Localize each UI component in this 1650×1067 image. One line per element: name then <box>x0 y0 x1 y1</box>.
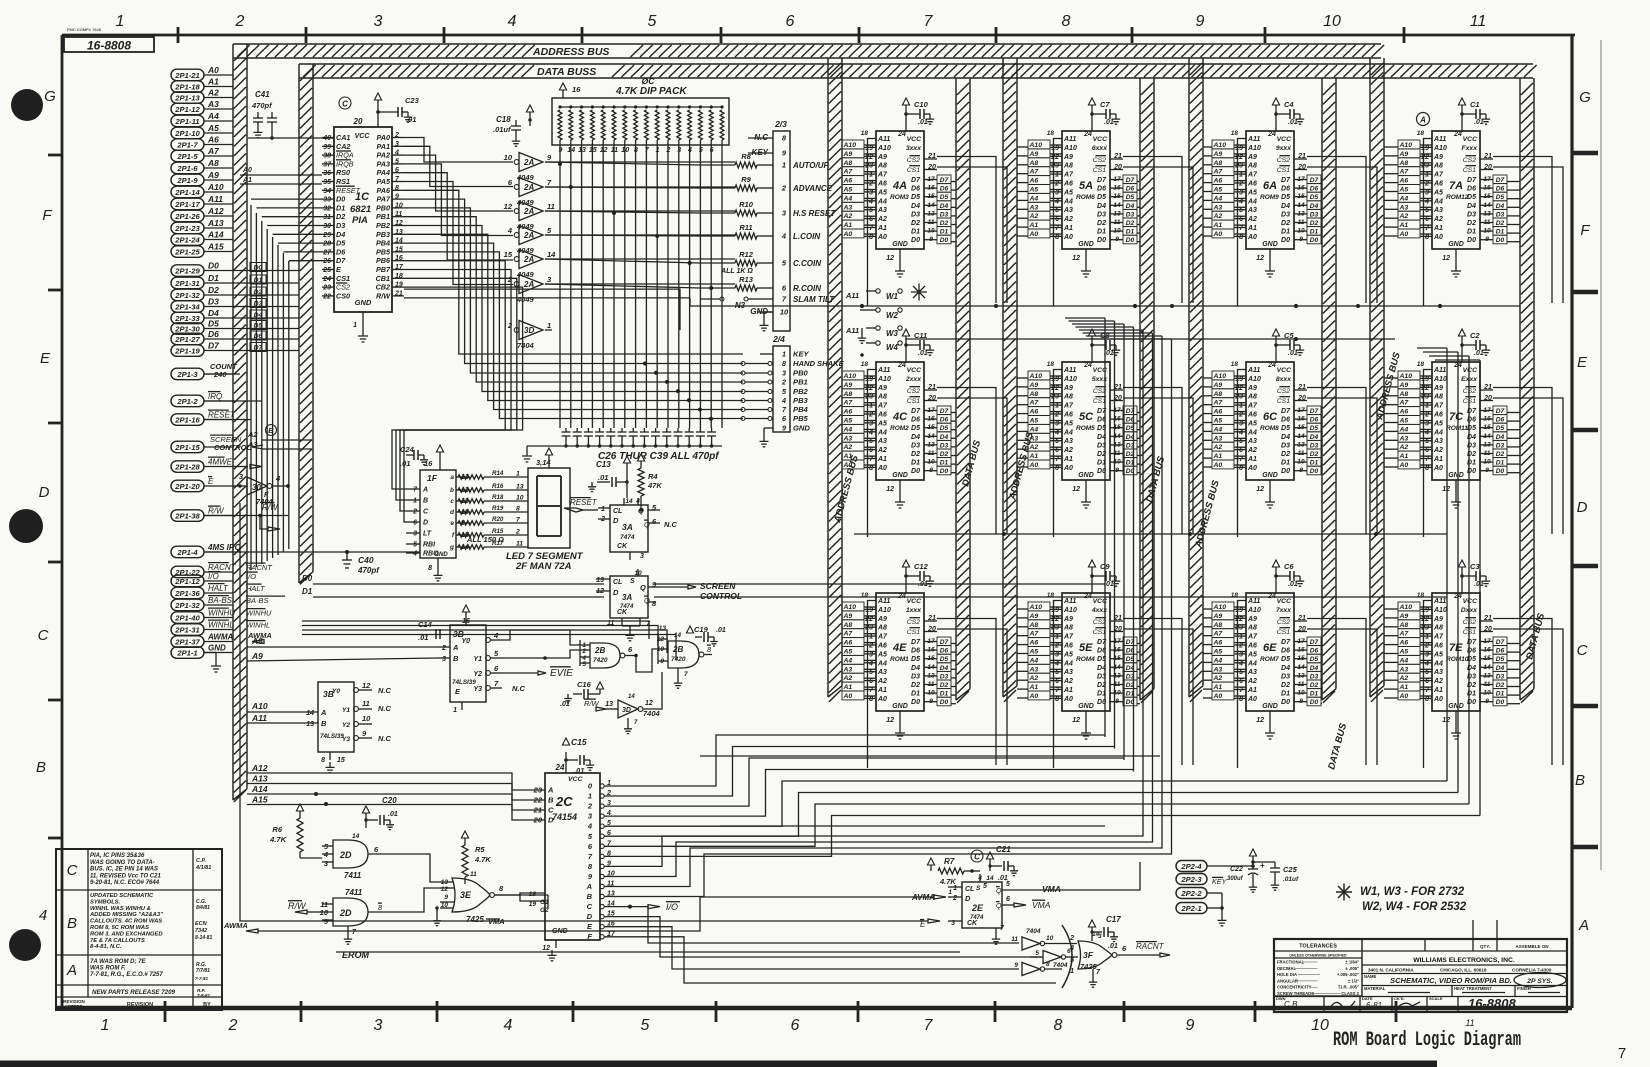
capacitor C16 .01 <box>560 680 604 708</box>
svg-text:D5: D5 <box>1310 425 1319 432</box>
svg-text:4: 4 <box>868 429 873 436</box>
svg-text:C15: C15 <box>571 737 587 747</box>
flip-flop 3A 7474 #1 <box>598 498 678 560</box>
svg-text:D2: D2 <box>336 212 345 221</box>
svg-text:E: E <box>336 265 341 274</box>
svg-text:2/3: 2/3 <box>774 119 787 129</box>
data tap wires col1 rowE <box>951 644 956 704</box>
svg-text:7/7/81: 7/7/81 <box>196 968 210 974</box>
svg-text:PB1: PB1 <box>376 212 390 221</box>
svg-text:A4: A4 <box>843 426 853 433</box>
svg-text:7411: 7411 <box>345 888 363 897</box>
svg-text:A0: A0 <box>1399 231 1409 238</box>
svg-text:CS2: CS2 <box>1093 388 1106 395</box>
svg-text:SCALE: SCALE <box>1429 996 1443 1001</box>
svg-text:.01: .01 <box>1104 119 1114 126</box>
svg-text:6: 6 <box>786 13 795 30</box>
svg-text:1: 1 <box>1070 968 1074 975</box>
svg-text:9xxx: 9xxx <box>1276 145 1292 152</box>
svg-text:ROM2: ROM2 <box>890 425 909 432</box>
A11 long wire below ROM row A <box>690 298 1520 308</box>
svg-text:D6: D6 <box>1310 648 1319 655</box>
svg-text:A14: A14 <box>207 230 224 240</box>
svg-text:A9: A9 <box>1063 616 1073 623</box>
svg-text:7: 7 <box>1055 456 1060 463</box>
ROM column 3 data bus vertical bar <box>1322 78 1336 703</box>
svg-text:74LSI39: 74LSI39 <box>320 733 344 740</box>
svg-text:A: A <box>547 786 553 795</box>
svg-text:CONCENTRICITY: CONCENTRICITY <box>1277 985 1312 990</box>
svg-text:C16: C16 <box>577 680 592 689</box>
wire 2B#1 out to 2B#2 in <box>634 649 658 672</box>
svg-text:22: 22 <box>1050 385 1059 392</box>
buffer output wires to 2/3 resistors <box>545 162 700 288</box>
svg-text:8: 8 <box>652 599 657 608</box>
svg-text:A10: A10 <box>1063 376 1077 383</box>
svg-text:16: 16 <box>572 85 581 94</box>
connector pin 2P1-13 (A2) <box>171 88 233 104</box>
svg-text:8: 8 <box>1425 465 1429 472</box>
svg-text:D6: D6 <box>1281 417 1290 424</box>
flip-flop 3A 7474 #2 <box>596 569 660 641</box>
svg-text:22: 22 <box>1420 385 1429 392</box>
resistor R7 4.7K <box>927 857 980 896</box>
svg-text:12: 12 <box>1442 486 1450 493</box>
svg-text:D1: D1 <box>302 587 313 596</box>
svg-text:2P1-19: 2P1-19 <box>174 346 200 355</box>
svg-text:C17: C17 <box>1106 915 1121 924</box>
svg-text:D3: D3 <box>911 211 920 218</box>
svg-text:D0: D0 <box>911 237 920 244</box>
svg-text:D7: D7 <box>1281 177 1291 184</box>
decoder 2C 74154 <box>520 752 616 961</box>
svg-text:A3: A3 <box>843 204 853 211</box>
A10 A11 wires to 3B #2 <box>247 701 300 723</box>
NAND gate 2B 7420 #1 <box>580 640 636 668</box>
svg-text:8xxx: 8xxx <box>1276 376 1292 383</box>
svg-text:A10: A10 <box>1029 604 1043 611</box>
buffer 2A 4049 #5 <box>504 250 557 280</box>
svg-text:A13: A13 <box>207 218 224 228</box>
svg-text:CS2: CS2 <box>907 157 920 164</box>
svg-text:CS2: CS2 <box>907 388 920 395</box>
svg-text:WINHU: WINHU <box>208 609 235 618</box>
svg-text:12: 12 <box>886 717 894 724</box>
svg-text:RBI: RBI <box>423 542 436 549</box>
svg-text:C20: C20 <box>382 796 397 805</box>
svg-text:A10: A10 <box>1247 376 1261 383</box>
svg-text:ADDRESS BUS: ADDRESS BUS <box>532 46 609 58</box>
svg-text:E: E <box>1577 354 1588 371</box>
svg-text:3: 3 <box>374 1017 383 1034</box>
svg-text:A1: A1 <box>877 225 887 232</box>
svg-text:A10: A10 <box>1399 142 1413 149</box>
svg-text:28: 28 <box>322 241 331 248</box>
svg-text:A6: A6 <box>1029 640 1039 647</box>
svg-text:1: 1 <box>1239 634 1243 641</box>
svg-text:D2: D2 <box>1281 451 1290 458</box>
buffer 2A 4049 #4 <box>507 226 552 256</box>
svg-text:D1: D1 <box>911 691 920 698</box>
address tap wires col4 rowA <box>1384 145 1432 236</box>
svg-text:LT: LT <box>423 531 432 538</box>
AND gate 2D 7411 #2 <box>320 888 390 944</box>
svg-text:A0: A0 <box>242 167 252 174</box>
svg-text:6821: 6821 <box>350 204 371 215</box>
svg-text:A8: A8 <box>1399 391 1409 398</box>
svg-text:C23: C23 <box>405 96 420 105</box>
svg-text:31: 31 <box>323 214 331 221</box>
svg-text:2: 2 <box>412 509 417 516</box>
svg-text:PA6: PA6 <box>377 186 391 195</box>
svg-text:4: 4 <box>1238 429 1243 436</box>
svg-text:A4: A4 <box>1399 426 1409 433</box>
svg-text:15: 15 <box>337 757 345 764</box>
svg-text:A0: A0 <box>843 462 853 469</box>
svg-text:D5: D5 <box>1126 194 1135 201</box>
inverter 7404 (5->6) <box>1030 948 1078 969</box>
svg-text:A7: A7 <box>1213 631 1224 638</box>
svg-text:A10: A10 <box>1399 373 1413 380</box>
svg-text:E: E <box>455 687 461 696</box>
svg-text:A7: A7 <box>1213 400 1224 407</box>
svg-text:C41: C41 <box>255 90 270 99</box>
svg-text:13: 13 <box>596 577 604 584</box>
svg-text:A8: A8 <box>843 391 853 398</box>
svg-text:RACNT: RACNT <box>1136 942 1165 951</box>
svg-text:22: 22 <box>1050 154 1059 161</box>
NAND gate 2B 7420 #2 <box>657 625 712 688</box>
svg-text:A11: A11 <box>1247 367 1260 374</box>
svg-text:R9: R9 <box>741 175 751 184</box>
svg-text:5: 5 <box>641 1017 650 1034</box>
svg-text:3: 3 <box>442 656 446 663</box>
svg-text:A2: A2 <box>1063 216 1073 223</box>
drawing number box 16-8808 <box>64 27 154 53</box>
ROM column 2 data bus vertical bar <box>1140 78 1154 703</box>
svg-text:2: 2 <box>1054 643 1059 650</box>
svg-text:7: 7 <box>352 929 357 936</box>
svg-text:D7: D7 <box>1310 408 1319 415</box>
svg-text:CS2: CS2 <box>336 283 350 292</box>
svg-text:4A: 4A <box>892 180 907 192</box>
svg-text:11: 11 <box>547 202 555 211</box>
svg-text:.01: .01 <box>918 119 928 126</box>
connector pin 2P1-4 (4MS IRQ) <box>171 543 242 558</box>
svg-text:d: d <box>450 509 455 516</box>
svg-text:C.B.: C.B. <box>1284 1000 1300 1009</box>
svg-text:WINHU: WINHU <box>246 609 272 618</box>
svg-text:22: 22 <box>1420 154 1429 161</box>
svg-text:A4: A4 <box>1213 195 1223 202</box>
svg-text:D1: D1 <box>1496 460 1505 467</box>
svg-text:2E: 2E <box>971 903 984 913</box>
svg-text:A8: A8 <box>877 163 887 170</box>
svg-text:A5: A5 <box>877 651 887 658</box>
svg-text:9: 9 <box>782 149 787 158</box>
svg-text:C21: C21 <box>996 845 1011 854</box>
svg-text:CK: CK <box>617 543 628 550</box>
svg-text:5: 5 <box>1055 207 1059 214</box>
svg-text:A0: A0 <box>1247 696 1257 703</box>
svg-text:2xxx: 2xxx <box>905 376 922 383</box>
svg-text:D7: D7 <box>1496 408 1505 415</box>
svg-text:D7: D7 <box>940 408 949 415</box>
svg-text:4: 4 <box>508 13 517 30</box>
svg-text:19: 19 <box>1051 376 1059 383</box>
svg-text:Exxx: Exxx <box>1461 376 1478 383</box>
svg-text:D6: D6 <box>940 648 949 655</box>
svg-text:A5: A5 <box>1213 649 1223 656</box>
svg-text:D7: D7 <box>1097 177 1107 184</box>
svg-text:N.C: N.C <box>378 704 392 713</box>
svg-text:22: 22 <box>864 154 873 161</box>
VMAbar output arrow <box>1014 900 1051 910</box>
NOR gate 3E 7425 <box>433 871 548 926</box>
svg-text:D1: D1 <box>1126 229 1135 236</box>
svg-text:A2: A2 <box>1029 675 1039 682</box>
svg-text:A8: A8 <box>207 158 219 168</box>
svg-text:R8: R8 <box>741 152 751 161</box>
svg-text:A13: A13 <box>251 774 268 784</box>
svg-text:1: 1 <box>116 13 125 30</box>
svg-text:A9: A9 <box>1247 154 1257 161</box>
svg-text:A0: A0 <box>1213 693 1223 700</box>
svg-text:5: 5 <box>1239 207 1243 214</box>
svg-text:D2: D2 <box>1467 220 1476 227</box>
svg-text:A5: A5 <box>1029 418 1039 425</box>
connector pin 2P1-30 (D5) <box>171 319 240 335</box>
svg-text:3401 N. CALIFORNIA: 3401 N. CALIFORNIA <box>1368 968 1414 973</box>
svg-text:PB1: PB1 <box>793 378 808 387</box>
svg-text:A15: A15 <box>207 242 224 252</box>
svg-text:5: 5 <box>1006 881 1010 888</box>
svg-text:5: 5 <box>782 387 787 396</box>
svg-text:CORNELIA 7-4300: CORNELIA 7-4300 <box>1512 968 1552 973</box>
svg-text:12: 12 <box>542 945 550 952</box>
boxed D labels on data wires <box>240 263 299 352</box>
svg-text:D6: D6 <box>1467 186 1476 193</box>
capacitor C20 .01 <box>362 796 397 830</box>
svg-text:GND: GND <box>1448 472 1464 479</box>
svg-text:2P1-13: 2P1-13 <box>174 93 200 102</box>
svg-text:W2, W4 - FOR 2532: W2, W4 - FOR 2532 <box>1362 901 1467 913</box>
svg-text:D1: D1 <box>1310 460 1319 467</box>
74154 outputs 8-B sweep to far right verticals <box>604 720 1172 897</box>
AND gate 2D 7411 #1 <box>322 833 390 880</box>
svg-text:A1: A1 <box>1063 456 1073 463</box>
svg-text:W2: W2 <box>886 311 899 320</box>
svg-text:19: 19 <box>865 607 873 614</box>
address tap wires col4 rowE <box>1384 607 1432 698</box>
svg-text:A7: A7 <box>1433 403 1444 410</box>
svg-text:8: 8 <box>1046 961 1050 968</box>
copyright mark near PIA <box>339 97 351 109</box>
svg-text:2: 2 <box>587 802 593 811</box>
svg-text:R5: R5 <box>475 845 485 854</box>
svg-text:GND: GND <box>1262 703 1278 710</box>
svg-text:A: A <box>586 882 592 891</box>
svg-text:A9: A9 <box>1247 385 1257 392</box>
svg-text:.01: .01 <box>1288 350 1298 357</box>
R/W input arrow to 2D <box>288 901 322 914</box>
svg-text:A7: A7 <box>843 631 854 638</box>
jumper W3 <box>858 326 902 343</box>
svg-text:D: D <box>423 520 428 527</box>
svg-text:A6: A6 <box>1247 412 1257 419</box>
svg-text:2P1-2: 2P1-2 <box>176 397 198 406</box>
svg-text:T.I.R. .005": T.I.R. .005" <box>1338 985 1359 990</box>
svg-text:G: G <box>1579 89 1591 106</box>
svg-text:A2: A2 <box>1399 444 1409 451</box>
svg-text:ROM3: ROM3 <box>890 194 909 201</box>
connector pin 2P1-19 (D7) <box>171 341 240 357</box>
svg-text:C40: C40 <box>358 555 374 565</box>
svg-text:6C: 6C <box>1263 411 1278 423</box>
svg-text:PA3: PA3 <box>377 159 390 168</box>
svg-text:2: 2 <box>868 181 873 188</box>
mid vertical select bundle <box>1105 318 1172 772</box>
svg-text:3F: 3F <box>1083 950 1094 960</box>
svg-text:2P1-38: 2P1-38 <box>174 511 200 520</box>
svg-text:A5: A5 <box>1213 418 1223 425</box>
svg-text:C.P.: C.P. <box>196 858 206 864</box>
svg-text:5: 5 <box>1035 950 1039 957</box>
address bus horizontal hatched bar <box>233 44 1384 58</box>
ROM column 4 address bus vertical bar <box>1370 58 1384 702</box>
svg-text:470pf: 470pf <box>357 566 380 575</box>
svg-text:3: 3 <box>547 275 552 284</box>
svg-text:1C: 1C <box>355 191 370 203</box>
svg-text:A10: A10 <box>251 701 268 711</box>
svg-text:5: 5 <box>648 13 657 30</box>
svg-text:A5: A5 <box>1063 651 1073 658</box>
svg-text:A0: A0 <box>843 693 853 700</box>
svg-text:D0: D0 <box>1097 237 1106 244</box>
ROM column 2 address bus vertical bar <box>1003 58 1017 702</box>
left data bus vertical hatched bar <box>299 64 313 584</box>
svg-text:29: 29 <box>322 232 331 239</box>
svg-text:NAME: NAME <box>1364 974 1377 979</box>
inverter 7404 (11->10) <box>1011 928 1077 950</box>
svg-text:3xxx: 3xxx <box>906 145 922 152</box>
svg-text:BA-BS: BA-BS <box>208 596 233 605</box>
svg-text:D6: D6 <box>911 417 920 424</box>
svg-text:A8: A8 <box>1213 622 1223 629</box>
svg-text:F: F <box>587 932 592 941</box>
svg-text:A0: A0 <box>877 465 887 472</box>
svg-text:2P1-4: 2P1-4 <box>176 548 198 557</box>
svg-text:.01: .01 <box>418 633 428 642</box>
svg-text:R18: R18 <box>492 494 504 501</box>
svg-text:A11: A11 <box>1247 598 1260 605</box>
data tap wires col3 rowA <box>1321 182 1322 242</box>
wires 2D outputs to 3E inputs <box>390 854 548 912</box>
svg-text:A: A <box>320 708 326 717</box>
svg-text:A11: A11 <box>877 598 890 605</box>
svg-text:.01: .01 <box>388 811 398 818</box>
svg-text:9: 9 <box>444 894 448 901</box>
svg-text:D7: D7 <box>940 639 949 646</box>
svg-text:3: 3 <box>869 189 873 196</box>
svg-text:A12: A12 <box>207 206 224 216</box>
svg-text:2A: 2A <box>523 255 534 264</box>
svg-text:12: 12 <box>1442 255 1450 262</box>
svg-text:D4: D4 <box>940 665 949 672</box>
svg-text:D0: D0 <box>1281 237 1290 244</box>
svg-text:7: 7 <box>869 225 874 232</box>
svg-text:6: 6 <box>869 447 873 454</box>
svg-text:6: 6 <box>494 664 499 673</box>
svg-text:D3: D3 <box>1496 673 1505 680</box>
svg-text:D: D <box>613 516 619 525</box>
svg-text:C14: C14 <box>418 620 433 629</box>
svg-text:4: 4 <box>587 822 593 831</box>
misc control wires into bus bar area <box>204 374 262 420</box>
svg-text:2: 2 <box>507 321 513 330</box>
svg-text:R20: R20 <box>492 516 504 523</box>
svg-text:D6: D6 <box>336 247 346 256</box>
svg-text:18: 18 <box>1047 592 1055 599</box>
svg-text:A0: A0 <box>1433 465 1443 472</box>
VMA wires to right <box>1030 862 1140 890</box>
4MS IRQ wire <box>204 551 240 553</box>
connector pin 2P1-32 (D2) <box>171 285 240 301</box>
svg-text:Q: Q <box>640 583 646 592</box>
svg-text:S: S <box>630 578 635 585</box>
svg-text:3D: 3D <box>524 326 534 335</box>
svg-text:C: C <box>423 509 429 516</box>
connector pin 2P2-1 <box>1176 903 1207 914</box>
select bundle top jogs <box>1065 318 1480 360</box>
registration dot middle <box>9 509 43 543</box>
svg-text:7E & 7A CALLOUTS: 7E & 7A CALLOUTS <box>90 938 145 944</box>
jumper W2 <box>860 308 902 320</box>
svg-text:CS1: CS1 <box>336 274 350 283</box>
svg-text:C18: C18 <box>496 115 511 124</box>
svg-text:WINHL: WINHL <box>246 621 270 630</box>
svg-text:F: F <box>42 207 52 224</box>
svg-text:RS1: RS1 <box>336 177 350 186</box>
svg-text:3B: 3B <box>453 629 464 639</box>
svg-text:D2: D2 <box>1496 220 1505 227</box>
svg-text:23: 23 <box>1050 625 1059 632</box>
svg-text:C25: C25 <box>1283 865 1298 874</box>
svg-text:D7: D7 <box>1310 177 1319 184</box>
svg-text:D7: D7 <box>254 345 264 352</box>
svg-text:9-20-81, N.C. ECO# 7644: 9-20-81, N.C. ECO# 7644 <box>90 880 160 886</box>
svg-text:A8: A8 <box>1213 160 1223 167</box>
svg-text:PB0: PB0 <box>376 203 390 212</box>
svg-text:ASSEMBLE ON: ASSEMBLE ON <box>1515 944 1548 949</box>
svg-text:4: 4 <box>1069 945 1074 952</box>
svg-text:4: 4 <box>275 474 281 483</box>
svg-text:A6: A6 <box>1213 178 1223 185</box>
svg-text:22: 22 <box>1234 385 1243 392</box>
svg-text:D7: D7 <box>336 256 346 265</box>
svg-text:2: 2 <box>441 645 446 652</box>
svg-text:A9: A9 <box>1433 154 1443 161</box>
svg-text:1: 1 <box>1055 172 1059 179</box>
svg-text:D3: D3 <box>1496 442 1505 449</box>
svg-text:D2: D2 <box>1097 220 1106 227</box>
svg-text:A5: A5 <box>1029 649 1039 656</box>
svg-text:D5: D5 <box>1281 656 1290 663</box>
svg-text:D3: D3 <box>208 297 219 307</box>
svg-text:SCREEN: SCREEN <box>700 581 736 591</box>
svg-text:2P1-17: 2P1-17 <box>174 200 200 209</box>
svg-text:D0: D0 <box>940 468 949 475</box>
